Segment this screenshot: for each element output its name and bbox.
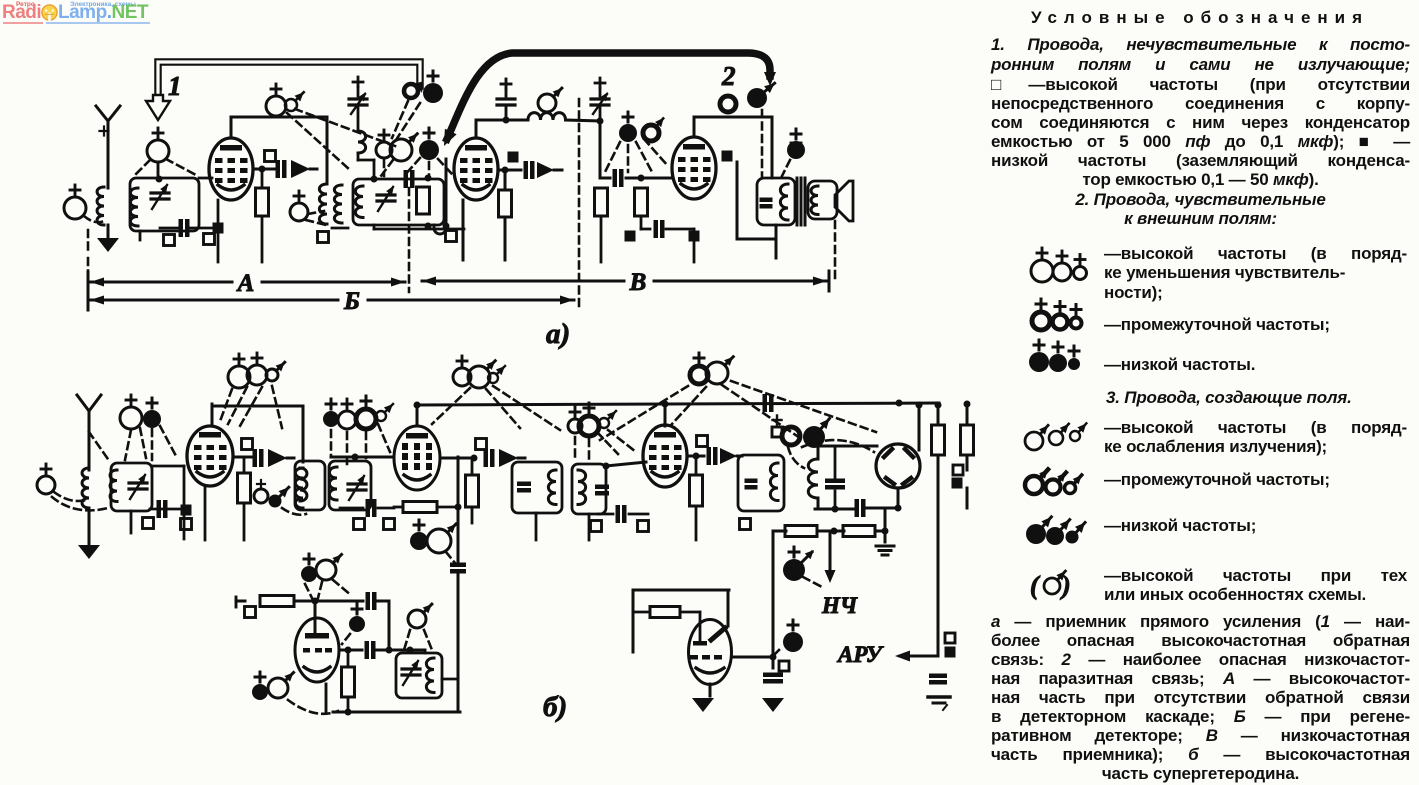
svg-text:А: А bbox=[236, 270, 255, 297]
svg-text:Б: Б bbox=[343, 288, 360, 315]
svg-text:В: В bbox=[629, 269, 647, 296]
svg-text:НЧ: НЧ bbox=[821, 593, 858, 618]
svg-text:1: 1 bbox=[168, 71, 182, 101]
svg-text:а): а) bbox=[546, 318, 570, 350]
svg-text:): ) bbox=[1060, 571, 1071, 600]
svg-text:2: 2 bbox=[721, 61, 736, 91]
svg-text:б): б) bbox=[543, 691, 567, 723]
svg-text:АРУ: АРУ bbox=[836, 642, 885, 667]
svg-text:(: ( bbox=[1030, 571, 1041, 600]
